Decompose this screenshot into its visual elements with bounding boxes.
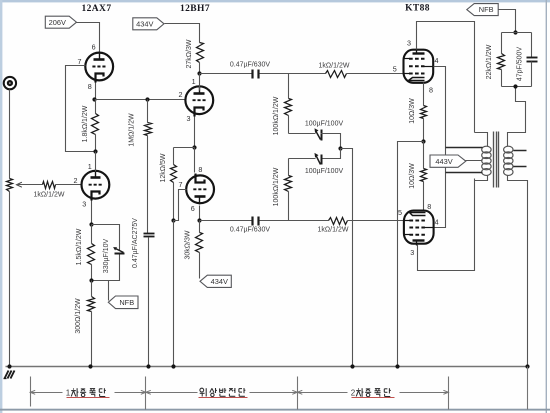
transformer core (494, 132, 499, 188)
svg-text:10Ω/3W: 10Ω/3W (409, 163, 416, 189)
svg-text:7: 7 (78, 57, 82, 66)
resistor 22k (498, 33, 505, 87)
svg-text:0.47µF/AC275V: 0.47µF/AC275V (132, 218, 139, 268)
rail node pot (7, 364, 11, 368)
pin 3 V3 (407, 39, 411, 48)
node T1 cathode out (92, 97, 96, 101)
node tail bottom (171, 218, 175, 222)
svg-text:100kΩ/1/2W: 100kΩ/1/2W (273, 167, 280, 206)
svg-text:10Ω/3W: 10Ω/3W (409, 98, 416, 124)
svg-text:330µF/10V: 330µF/10V (103, 238, 110, 273)
label KT88 (405, 4, 430, 14)
capacitor 100uF upper (315, 128, 322, 140)
resistor 1M (145, 100, 152, 234)
label 0.47 AC (132, 218, 139, 268)
stage label 1차증폭단 (66, 388, 110, 397)
flag NFB upper (467, 4, 498, 16)
label 1.8k (82, 105, 89, 142)
pin 4 V3 (435, 56, 439, 65)
wire stage1 to stage2 grid (95, 99, 186, 101)
wire 434V to 27k (165, 24, 200, 43)
wire jack to volume pot (9, 90, 11, 179)
label 47pF (517, 47, 524, 82)
svg-text:27kΩ/3W: 27kΩ/3W (186, 39, 193, 68)
svg-text:12AX7: 12AX7 (82, 4, 112, 14)
wire T3 cathode down (194, 117, 196, 148)
divider bar stage2 left (145, 377, 147, 410)
rail node 300ohm (88, 364, 92, 368)
svg-text:0.47µF/630V: 0.47µF/630V (230, 61, 271, 68)
ultralinear tap upper (446, 147, 483, 149)
secondary bottom lead (508, 176, 528, 367)
label 12BH7 (180, 4, 210, 14)
tube V3 KT88 upper (404, 49, 434, 83)
triode T3 12BH7a (185, 86, 213, 117)
transformer primary winding (482, 146, 491, 175)
stage arrow 2 (146, 390, 298, 394)
pin 1 T3 (192, 77, 196, 86)
input jack J1 (4, 77, 16, 89)
svg-text:12kΩ/5W: 12kΩ/5W (160, 153, 167, 182)
label 22k (486, 44, 493, 79)
wire T4 out to cap (200, 220, 252, 222)
wire pot to ground rail (9, 192, 11, 367)
label 100uF upper (305, 120, 344, 127)
wire lower cap to 100k (289, 158, 316, 160)
wire 206V to T1 plate (77, 23, 100, 53)
pin 3 T3 (187, 114, 191, 123)
triode T1 12AX7a (85, 52, 113, 83)
resistor 1k lower (289, 218, 404, 225)
label 1M (129, 113, 136, 147)
flag NFB lower (108, 296, 138, 309)
node 1M top (145, 97, 149, 101)
node RC bottom (513, 84, 517, 88)
wire RC top rail (502, 32, 532, 34)
flag 206V (45, 16, 76, 28)
svg-text:443V: 443V (435, 157, 452, 166)
label 100uF lower (305, 168, 344, 175)
svg-text:3: 3 (82, 200, 86, 209)
svg-text:0.47µF/630V: 0.47µF/630V (230, 226, 271, 233)
volume potentiometer VR1 (7, 179, 13, 192)
triode T2 12AX7b (82, 170, 110, 201)
resistor 10ohm upper (421, 106, 427, 142)
ground symbol (4, 371, 15, 379)
wire 443V to center tap (466, 160, 483, 162)
node cathodes (421, 139, 425, 143)
flag 434V lower (200, 275, 231, 287)
rail node bias riser (350, 364, 354, 368)
wire mid to lower cap (321, 149, 341, 159)
wire V3 screen (434, 67, 446, 228)
label 1k lower (318, 226, 349, 233)
pin 3 V4 (410, 248, 414, 257)
capacitor 100uF lower (315, 153, 322, 165)
divider bar output (527, 367, 529, 410)
svg-text:2: 2 (179, 90, 183, 99)
svg-text:1.8kΩ/1/2W: 1.8kΩ/1/2W (82, 105, 89, 142)
resistor 1k upper (289, 71, 404, 78)
resistor 1.8k (92, 100, 99, 152)
wire T3 plate stem (199, 74, 201, 91)
svg-text:KT88: KT88 (405, 4, 430, 14)
node bias mid (338, 146, 342, 150)
wire AC cap to rail (148, 238, 150, 367)
svg-text:2: 2 (351, 388, 356, 397)
wire RC bottom rail (502, 86, 532, 88)
pot wiper arrow (17, 182, 43, 187)
transformer primary lead top (475, 133, 488, 147)
wire V3 cathode down (423, 83, 425, 106)
svg-text:100µF/100V: 100µF/100V (305, 120, 344, 127)
svg-text:4: 4 (435, 217, 439, 226)
wire to T2 grid pin2 (56, 184, 82, 186)
tube V4 KT88 lower inverted (404, 211, 434, 246)
pin 8 T1 (88, 82, 92, 91)
svg-text:5: 5 (398, 208, 402, 217)
label 0.47 upper (230, 61, 271, 68)
svg-text:1: 1 (192, 77, 196, 86)
wire cap to mid node (321, 134, 341, 149)
stage arrow 3 (297, 390, 448, 394)
pin 8 V4 (427, 202, 431, 211)
svg-text:1: 1 (88, 162, 92, 171)
label 1kohm input (34, 192, 65, 199)
rail node cathode riser (395, 364, 399, 368)
label 1.5k (76, 228, 83, 265)
rail node AC cap (146, 364, 150, 368)
node cathode network bottom (89, 278, 93, 282)
label 100k lower (273, 167, 280, 206)
wire V4 plate down (418, 179, 475, 271)
node T4 plate out (197, 218, 201, 222)
pin 8 T4 (198, 165, 202, 174)
svg-text:434V: 434V (211, 277, 228, 286)
svg-text:8: 8 (429, 85, 433, 94)
divider bar stage3 right (448, 377, 450, 410)
svg-text:6: 6 (92, 42, 96, 51)
divider bar stage3 left (297, 377, 299, 410)
flag 434V upper (133, 18, 164, 30)
svg-text:1kΩ/1/2W: 1kΩ/1/2W (318, 226, 349, 233)
transformer secondary winding (504, 146, 513, 175)
pin 4 V4 (435, 217, 439, 226)
resistor 1k-input (43, 182, 56, 189)
capacitor 0.47uF AC275V (144, 234, 155, 237)
wire NFB stub (108, 281, 110, 301)
wire cap to node lower (260, 220, 289, 222)
wire NFB to RC (499, 10, 516, 33)
wire T2 cathode down (91, 201, 93, 225)
svg-text:NFB: NFB (479, 5, 494, 14)
svg-text:3: 3 (410, 248, 414, 257)
secondary tap upper (514, 150, 527, 152)
wire 100k to cap upper (289, 133, 316, 135)
svg-text:6: 6 (191, 204, 195, 213)
svg-text:7: 7 (179, 180, 183, 189)
stage label 위상반전단 (199, 388, 248, 398)
svg-text:4: 4 (435, 56, 439, 65)
pin 1 T2 (88, 162, 92, 171)
svg-text:1kΩ/1/2W: 1kΩ/1/2W (319, 62, 350, 69)
resistor 30k (196, 221, 203, 279)
rail node tail (171, 364, 175, 368)
label 12k (160, 153, 167, 182)
ultralinear tap lower (446, 172, 483, 174)
capacitor 330uF (113, 247, 124, 253)
pin 3 T2 (82, 200, 86, 209)
resistor 1.5k (88, 225, 95, 281)
wire T2 plate stem (95, 152, 97, 172)
pin 7 T4 (179, 180, 183, 189)
label 100k upper (273, 96, 280, 135)
label 10ohm lower (409, 163, 416, 189)
svg-text:1: 1 (66, 388, 71, 397)
svg-text:300Ω/1/2W: 300Ω/1/2W (75, 298, 82, 334)
wire T4 plate stem (199, 206, 201, 221)
svg-text:3: 3 (187, 114, 191, 123)
wire T4 grid (174, 190, 187, 221)
capacitor 0.47uF upper (253, 70, 259, 79)
wire cap to node (260, 73, 289, 75)
svg-text:434V: 434V (136, 19, 153, 28)
triode T4 12BH7b inverted (186, 174, 214, 205)
svg-text:5: 5 (393, 65, 397, 74)
label 330uF (103, 238, 110, 273)
wire bypass branch (92, 225, 120, 281)
capacitor 47pF (527, 33, 538, 87)
stage arrow 1 (30, 390, 146, 394)
svg-text:8: 8 (88, 82, 92, 91)
svg-text:206V: 206V (49, 18, 66, 27)
svg-text:8: 8 (427, 202, 431, 211)
wire T1 grid (66, 66, 96, 152)
resistor 300ohm (88, 281, 95, 367)
svg-text:1.5kΩ/1/2W: 1.5kΩ/1/2W (76, 228, 83, 265)
svg-text:47pF/500V: 47pF/500V (517, 47, 524, 82)
node cathode network top (89, 222, 93, 226)
resistor 100k lower (285, 159, 292, 221)
ground rail (6, 366, 529, 368)
svg-text:22kΩ/1/2W: 22kΩ/1/2W (486, 44, 493, 79)
wire T3 out to cap (200, 73, 252, 75)
wire tail left (174, 147, 195, 149)
wire V3 plate up (417, 22, 475, 133)
secondary tap lower (514, 166, 527, 168)
rail node transformer (525, 364, 529, 368)
pin 6 T4 (191, 204, 195, 213)
label 0.47 lower (230, 226, 271, 233)
capacitor 0.47uF lower (253, 217, 259, 226)
label 300ohm (75, 298, 82, 334)
node T2 plate junction (93, 149, 97, 153)
label 12AX7 (82, 4, 112, 14)
node cathode couple (192, 145, 196, 149)
resistor 100k upper (285, 74, 292, 134)
svg-text:NFB: NFB (119, 298, 134, 307)
node RC top (513, 30, 517, 34)
pin 2 T3 (179, 90, 183, 99)
flag 443V (430, 155, 466, 167)
node T3 plate (197, 71, 201, 75)
svg-text:8: 8 (198, 165, 202, 174)
label 1k upper (319, 62, 350, 69)
pin 2 T2 (74, 176, 78, 185)
transformer primary lead bottom (475, 176, 488, 181)
wire mid node to riser (341, 149, 353, 367)
wire T1 cathode down (95, 83, 97, 100)
wire cathode node left (398, 142, 424, 367)
svg-text:2: 2 (74, 176, 78, 185)
wire tail to rail (173, 221, 175, 367)
svg-text:100kΩ/1/2W: 100kΩ/1/2W (273, 96, 280, 135)
stage label 2차증폭단 (351, 388, 395, 397)
pin 8 V3 (429, 85, 433, 94)
svg-text:1kΩ/1/2W: 1kΩ/1/2W (34, 192, 65, 199)
wire T4 cathode up (194, 148, 196, 173)
label 30k (185, 230, 192, 259)
resistor 27k (197, 43, 204, 74)
svg-text:3: 3 (407, 39, 411, 48)
label 27k (186, 39, 193, 68)
resistor 12k (171, 148, 177, 221)
pin 7 T1 (78, 57, 82, 66)
svg-text:1MΩ/1/2W: 1MΩ/1/2W (129, 113, 136, 147)
svg-text:30kΩ/3W: 30kΩ/3W (185, 230, 192, 259)
pin 6 T1 (92, 42, 96, 51)
svg-text:12BH7: 12BH7 (180, 4, 210, 14)
pin 5 V4 (398, 208, 402, 217)
svg-text:100µF/100V: 100µF/100V (305, 168, 344, 175)
divider bar stage1 left (30, 377, 32, 407)
secondary top lead (508, 87, 526, 147)
pin 5 V3 (393, 65, 397, 74)
resistor 10ohm lower (421, 142, 427, 211)
label 10ohm upper (409, 98, 416, 124)
